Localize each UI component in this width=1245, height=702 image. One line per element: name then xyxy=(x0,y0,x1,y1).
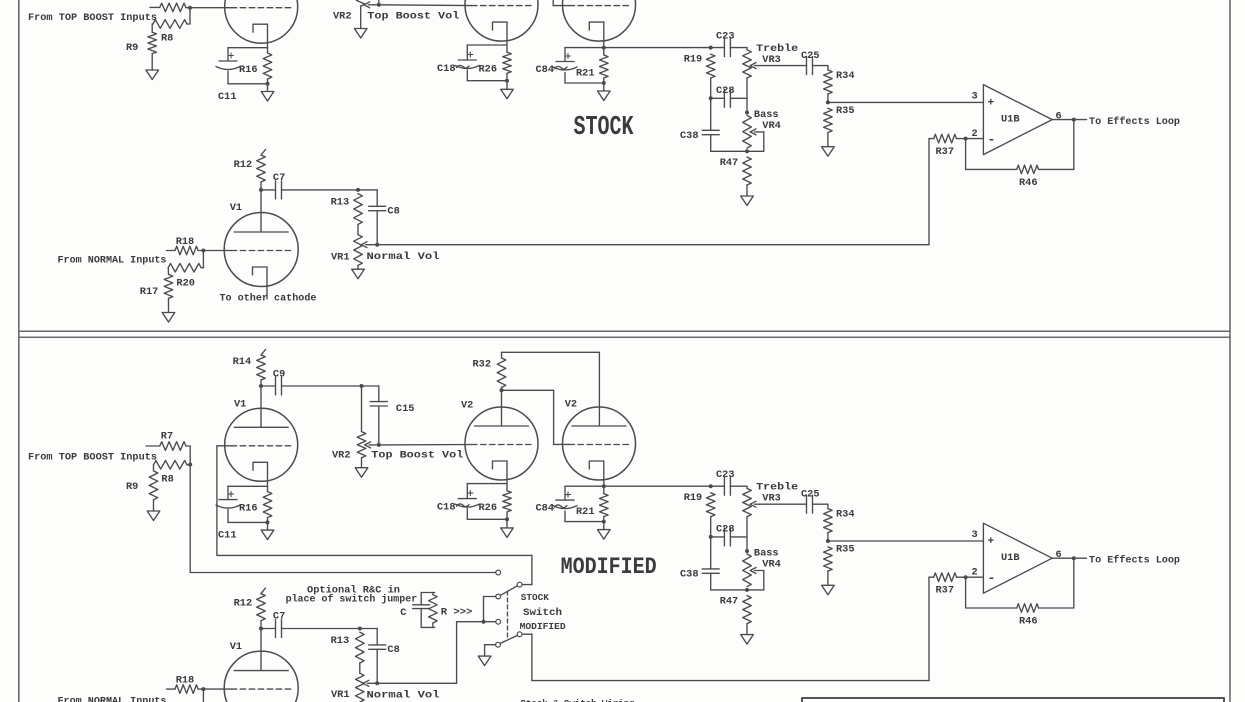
ground under R16/C11 (MOD) xyxy=(267,522,269,530)
svg-text:C9: C9 xyxy=(273,369,285,381)
svg-text:C23: C23 xyxy=(716,469,735,481)
svg-text:C84: C84 xyxy=(536,503,555,515)
wire R37 to pin 2 (MOD) xyxy=(957,576,984,578)
svg-text:VR2: VR2 xyxy=(333,10,352,22)
wire cathode follower output rail (MOD) xyxy=(565,485,711,487)
resistor R20 (STOCK) xyxy=(202,251,204,268)
wire direct coupling stub to V2b grid (STOCK) xyxy=(552,0,554,6)
resistor R37 (STOCK) xyxy=(929,138,934,140)
frame modified top border xyxy=(19,336,1230,338)
node feedback/pin2 (STOCK) xyxy=(964,137,968,141)
svg-text:C15: C15 xyxy=(396,403,415,415)
resistor R21 (STOCK) xyxy=(600,55,609,78)
switch contact pole1 throw xyxy=(517,582,522,587)
svg-text:MODIFIED: MODIFIED xyxy=(561,554,657,580)
op-amp U1B (STOCK) xyxy=(983,85,1052,155)
node R16/C11 bottom (STOCK) xyxy=(266,82,270,86)
svg-text:From TOP BOOST Inputs: From TOP BOOST Inputs xyxy=(28,452,157,464)
resistor R13 (STOCK) xyxy=(354,194,363,225)
node cathode output (STOCK) xyxy=(602,46,606,50)
svg-text:R37: R37 xyxy=(936,146,955,158)
op-amp U1B (MOD) xyxy=(983,523,1052,593)
svg-text:R47: R47 xyxy=(720,596,739,608)
capacitor C7 (STOCK) xyxy=(261,189,276,191)
svg-text:VR1: VR1 xyxy=(331,252,350,264)
frame right border xyxy=(1229,0,1231,702)
svg-text:R26: R26 xyxy=(479,502,498,514)
node R26/C18 bottom (MOD) xyxy=(505,517,509,521)
svg-text:place of switch jumper: place of switch jumper xyxy=(286,594,418,606)
resistor R19 (MOD) xyxy=(706,493,715,517)
wire C9 to C15/VR2 (MOD) xyxy=(282,385,379,387)
potentiometer VR2 Top Boost Vol (STOCK, clipped) xyxy=(356,0,365,6)
svg-text:C23: C23 xyxy=(716,31,735,43)
ground under R26 (STOCK) xyxy=(506,81,508,90)
capacitor C11 (MOD) xyxy=(228,485,268,487)
resistor R8 (MOD) xyxy=(154,461,188,470)
node R16/C11 bottom (MOD) xyxy=(266,520,270,524)
node Bass (STOCK) xyxy=(745,111,749,115)
capacitor C8 (MOD) xyxy=(376,629,378,645)
svg-text:+: + xyxy=(988,98,995,110)
potentiometer VR1 Normal Vol (MOD) xyxy=(359,663,361,673)
node R21/C84 bottom (MOD) xyxy=(602,520,606,524)
optional RC network C xyxy=(421,592,435,594)
ground under R47 (STOCK) xyxy=(746,185,748,196)
triode V2 second stage (MOD) xyxy=(465,407,538,480)
resistor R46 feedback (MOD) xyxy=(965,577,967,608)
node Bass (MOD) xyxy=(745,549,749,553)
svg-text:STOCK: STOCK xyxy=(521,592,549,603)
triode V2 cathode follower (MOD) xyxy=(563,407,636,480)
wire to op-amp pin 3 (STOCK) xyxy=(828,101,984,103)
svg-text:C28: C28 xyxy=(716,85,735,97)
svg-text:C: C xyxy=(400,607,406,619)
svg-text:C7: C7 xyxy=(273,611,285,623)
wire tone stack bottom rail (STOCK) xyxy=(711,150,764,152)
svg-text:R18: R18 xyxy=(176,675,195,687)
svg-text:From NORMAL Inputs: From NORMAL Inputs xyxy=(58,696,167,702)
wire cathode V1 to R16 (STOCK) xyxy=(267,24,269,53)
resistor R7 (MOD) xyxy=(160,442,186,451)
wire wiper to V2 grid (STOCK) xyxy=(379,4,472,7)
node feedback/pin2 (MOD) xyxy=(964,575,968,579)
svg-text:R46: R46 xyxy=(1019,616,1038,628)
ground under VR2 (MOD) xyxy=(361,458,363,468)
node R34/R35 (MOD) xyxy=(826,539,830,543)
wire V2a plate to V2b grid (MOD) xyxy=(502,389,554,391)
wire cathode to other cathode (STOCK) xyxy=(266,267,268,299)
capacitor C28 (STOCK) xyxy=(711,97,725,99)
frame left border xyxy=(18,0,20,702)
svg-text:-: - xyxy=(988,571,996,586)
node tone stack input (STOCK) xyxy=(709,46,713,50)
wire cathode V1 to R16 (MOD) xyxy=(267,462,269,491)
svg-text:C8: C8 xyxy=(387,206,399,218)
svg-text:V1: V1 xyxy=(230,202,242,214)
capacitor C25 (STOCK) xyxy=(806,57,808,75)
resistor R13 (MOD) xyxy=(356,632,365,663)
node R7/R8 (MOD) xyxy=(188,463,192,467)
node C15/wiper (MOD) xyxy=(377,443,381,447)
capacitor C15 (MOD) xyxy=(378,386,380,402)
svg-text:R12: R12 xyxy=(234,159,253,171)
wire R7/R8 node to switch contact (MOD) xyxy=(190,572,495,574)
svg-text:R32: R32 xyxy=(473,359,492,371)
svg-text:VR4: VR4 xyxy=(762,120,781,132)
svg-text:R34: R34 xyxy=(836,509,855,521)
node R21/C84 bottom (STOCK) xyxy=(602,81,606,85)
resistor R21 (MOD) xyxy=(600,494,609,517)
ground under R9 (MOD) xyxy=(153,500,155,511)
node R12/C7/plate (STOCK) xyxy=(259,188,263,192)
capacitor C25 (MOD) xyxy=(806,495,808,513)
resistor R19 (STOCK) xyxy=(706,54,715,78)
wire cathode V2a to R26 (MOD) xyxy=(506,461,508,491)
triode V1 normal channel (STOCK) xyxy=(260,190,262,232)
ground at switch pole2 common xyxy=(485,644,496,646)
pin 6 output wire (MOD) xyxy=(1052,557,1086,559)
svg-text:R26: R26 xyxy=(479,64,498,76)
triode V1 first stage (MOD) xyxy=(225,408,298,481)
svg-text:R35: R35 xyxy=(836,105,855,117)
wire grid rail to switch (MOD) xyxy=(217,554,532,556)
node cathode output (MOD) xyxy=(602,484,606,488)
svg-text:R7: R7 xyxy=(161,431,173,443)
frame stock bottom border xyxy=(19,330,1230,332)
svg-text:R21: R21 xyxy=(576,506,595,518)
svg-text:To other cathode: To other cathode xyxy=(220,293,317,305)
resistor R16 (STOCK) xyxy=(263,53,272,79)
svg-text:C8: C8 xyxy=(387,644,399,656)
triode V1 normal channel (MOD, clipped at bottom) xyxy=(260,629,262,671)
wire cathode V2a to R26 (STOCK) xyxy=(506,22,508,52)
svg-text:R16: R16 xyxy=(239,503,258,515)
wire R37 to pin 2 (STOCK) xyxy=(957,138,984,140)
svg-text:R18: R18 xyxy=(176,236,195,248)
capacitor C23 (STOCK) xyxy=(711,47,725,49)
node R14/C9/plate (MOD) xyxy=(259,384,263,388)
ground under R21 (STOCK) xyxy=(603,83,605,91)
svg-text:R9: R9 xyxy=(126,481,138,493)
svg-text:From NORMAL Inputs: From NORMAL Inputs xyxy=(58,255,167,267)
svg-text:R13: R13 xyxy=(331,197,350,209)
node switch jumper junction xyxy=(482,620,486,624)
node VR1 wiper (STOCK) xyxy=(375,243,379,247)
svg-text:To Effects Loop: To Effects Loop xyxy=(1089,116,1180,128)
potentiometer VR3 Treble (MOD) xyxy=(746,486,748,488)
node R34/R35 (STOCK) xyxy=(826,100,830,104)
svg-text:VR4: VR4 xyxy=(762,559,781,571)
svg-text:STOCK: STOCK xyxy=(574,113,635,143)
switch mechanical link (dashed) xyxy=(507,591,509,638)
node R18/grid (MOD) xyxy=(201,687,205,691)
switch pole2 lever xyxy=(500,636,517,644)
potentiometer VR4 Bass (MOD) xyxy=(743,554,752,587)
resistor R9 (MOD) xyxy=(153,465,155,471)
capacitor C11 (STOCK) xyxy=(228,47,268,49)
svg-text:C38: C38 xyxy=(680,130,699,142)
svg-text:R34: R34 xyxy=(836,70,855,82)
svg-text:R47: R47 xyxy=(720,157,739,169)
pin 6 output wire (STOCK) xyxy=(1052,119,1086,121)
svg-text:R9: R9 xyxy=(126,42,138,54)
node R19/C28/C38 (MOD) xyxy=(709,535,713,539)
optional RC network R xyxy=(432,593,434,595)
wire cathode follower output rail (STOCK) xyxy=(565,47,711,49)
potentiometer VR2 Top Boost Vol (MOD) xyxy=(357,432,366,458)
capacitor C18 (MOD) xyxy=(467,483,507,485)
capacitor C38 (MOD) xyxy=(710,537,712,569)
svg-text:R14: R14 xyxy=(233,356,252,368)
resistor R34 (MOD) xyxy=(813,503,828,505)
node R32 bottom / V2a plate (MOD) xyxy=(500,388,504,392)
node R47 top (STOCK) xyxy=(745,149,749,153)
node R13 top (MOD) xyxy=(358,627,362,631)
capacitor C28 (MOD) xyxy=(711,536,725,538)
svg-text:C38: C38 xyxy=(680,569,699,581)
wire VR1 rail to contact xyxy=(457,621,496,623)
resistor R17 (STOCK) xyxy=(167,268,169,275)
wire node to switch (MOD) xyxy=(189,465,191,573)
svg-text:R8: R8 xyxy=(161,474,173,486)
ground under R26 (MOD) xyxy=(506,519,508,528)
ground under R16/C11 (STOCK) xyxy=(267,84,269,92)
wire VR3 wiper to C25 (MOD) xyxy=(757,503,807,505)
svg-text:R20: R20 xyxy=(176,278,195,290)
wire R32 top to V2b plate (MOD) xyxy=(502,351,600,353)
ground under VR2 (STOCK) xyxy=(360,6,362,29)
potentiometer VR1 Normal Vol (STOCK) xyxy=(357,224,359,234)
wire VR1 wiper to R37 (STOCK) xyxy=(377,244,929,246)
svg-text:Stock & Switch Wiring: Stock & Switch Wiring xyxy=(521,699,635,702)
node VR2 wiper junction (STOCK) xyxy=(377,3,381,7)
svg-text:R17: R17 xyxy=(140,286,159,298)
switch contact pole2 common xyxy=(496,642,501,647)
triode V2 cathode follower (STOCK, clipped at top) xyxy=(563,0,636,41)
switch contact pole2 top xyxy=(496,619,501,624)
svg-text:R12: R12 xyxy=(234,598,253,610)
wire pole2 throw to op-amp return rail xyxy=(522,633,532,635)
svg-text:R19: R19 xyxy=(684,492,703,504)
resistor R8 (STOCK) xyxy=(153,20,187,29)
wire tone stack bottom rail (MOD) xyxy=(711,589,764,591)
title block bottom right xyxy=(802,698,1224,702)
svg-text:Top Boost Vol: Top Boost Vol xyxy=(371,450,463,462)
wire R7 to grid node (STOCK) xyxy=(186,7,190,9)
capacitor C9 (MOD) xyxy=(261,385,276,387)
wire switch jumper xyxy=(484,596,496,598)
svg-text:3: 3 xyxy=(972,529,978,541)
svg-text:U1B: U1B xyxy=(1001,114,1020,126)
capacitor C84 (STOCK) xyxy=(564,48,566,62)
svg-text:Normal Vol: Normal Vol xyxy=(367,689,440,701)
svg-text:R8: R8 xyxy=(161,33,173,45)
ground under R17 (STOCK) xyxy=(168,298,170,312)
svg-text:U1B: U1B xyxy=(1001,552,1020,564)
resistor R35 (STOCK) xyxy=(824,108,833,132)
svg-text:VR3: VR3 xyxy=(762,54,781,66)
svg-text:VR1: VR1 xyxy=(331,689,350,701)
svg-text:3: 3 xyxy=(972,91,978,103)
svg-text:+: + xyxy=(988,536,995,548)
svg-text:R46: R46 xyxy=(1019,177,1038,189)
svg-text:From TOP BOOST Inputs: From TOP BOOST Inputs xyxy=(28,12,157,24)
potentiometer VR4 Bass (STOCK) xyxy=(743,115,752,148)
wire R8 to node (STOCK) xyxy=(187,23,190,25)
resistor R34 (STOCK) xyxy=(813,65,828,67)
svg-text:V1: V1 xyxy=(234,399,246,411)
svg-text:Normal Vol: Normal Vol xyxy=(367,251,440,263)
switch contact pole1 common xyxy=(496,594,501,599)
svg-text:To Effects Loop: To Effects Loop xyxy=(1089,555,1180,567)
wire C7 to R13 node (STOCK) xyxy=(282,189,378,191)
svg-text:C18: C18 xyxy=(437,63,456,75)
resistor R46 feedback (STOCK) xyxy=(965,139,967,170)
node: R7/R8 junction (STOCK) xyxy=(188,6,192,10)
wire VR3 wiper to C25 (STOCK) xyxy=(757,65,807,67)
svg-text:6: 6 xyxy=(1056,549,1062,561)
svg-text:R19: R19 xyxy=(684,54,703,66)
svg-text:R >>>: R >>> xyxy=(441,607,473,619)
resistor R7 (STOCK) xyxy=(160,3,186,12)
wire VR1 wiper to switch (MOD) xyxy=(377,682,456,684)
node R26/C18 bottom (STOCK) xyxy=(505,79,509,83)
triode V2 second stage (STOCK, clipped at top) xyxy=(465,0,538,41)
svg-text:R21: R21 xyxy=(576,68,595,80)
resistor R26 (STOCK) xyxy=(503,52,512,73)
wire from C9 above frame to VR2 wiper (STOCK) xyxy=(378,0,380,5)
svg-text:C84: C84 xyxy=(536,64,555,76)
capacitor C84 (MOD) xyxy=(564,486,566,500)
switch contact pole2 throw xyxy=(517,632,522,637)
svg-text:C11: C11 xyxy=(218,530,237,542)
capacitor C18 (STOCK) xyxy=(467,44,507,46)
svg-text:6: 6 xyxy=(1056,111,1062,123)
ground under R21 (MOD) xyxy=(603,522,605,530)
svg-text:Switch: Switch xyxy=(523,607,562,619)
wire R7 to node (MOD) xyxy=(186,445,190,447)
svg-text:C18: C18 xyxy=(437,502,456,514)
switch contact stock-top xyxy=(496,570,501,575)
node R18/grid (STOCK) xyxy=(201,249,205,253)
ground under R47 (MOD) xyxy=(746,624,748,635)
resistor R16 (MOD) xyxy=(263,492,272,518)
wire cathode V2b down through node (STOCK) xyxy=(603,22,605,55)
wire to R7 (MOD) xyxy=(146,445,160,447)
resistor R47 (STOCK) xyxy=(743,157,752,185)
svg-text:VR3: VR3 xyxy=(762,493,781,505)
svg-text:C7: C7 xyxy=(273,172,285,184)
node R13 top (STOCK) xyxy=(356,188,360,192)
resistor R35 (MOD) xyxy=(824,547,833,571)
svg-text:C11: C11 xyxy=(218,91,237,103)
ground under R35 (STOCK) xyxy=(827,133,829,147)
wire cathode V2b down (MOD) xyxy=(603,461,605,494)
svg-text:MODIFIED: MODIFIED xyxy=(520,621,566,632)
ground under VR1 (STOCK) xyxy=(357,265,359,269)
capacitor C23 (MOD) xyxy=(711,485,725,487)
node output (MOD) xyxy=(1072,556,1076,560)
svg-text:R16: R16 xyxy=(239,64,258,76)
svg-text:VR2: VR2 xyxy=(332,450,351,462)
resistor R47 (MOD) xyxy=(743,596,752,624)
node output (STOCK) xyxy=(1072,118,1076,122)
wire V1 grid to switch (MOD) xyxy=(217,445,231,447)
node VR1 wiper (MOD) xyxy=(375,681,379,685)
capacitor C7 (MOD) xyxy=(261,628,276,630)
resistor R9 (STOCK) xyxy=(151,23,154,25)
svg-text:V1: V1 xyxy=(230,641,242,653)
resistor R26 (MOD) xyxy=(503,491,512,512)
capacitor C38 (STOCK) xyxy=(710,98,712,130)
capacitor C8 (STOCK) xyxy=(376,190,378,206)
wire to R7 (STOCK) xyxy=(150,6,160,8)
svg-text:-: - xyxy=(988,132,996,147)
node R12/C7/plate (MOD) xyxy=(259,627,263,631)
node tone stack input (MOD) xyxy=(709,484,713,488)
triode V1 first stage (STOCK, clipped at top) xyxy=(225,0,298,43)
svg-text:V2: V2 xyxy=(565,399,577,411)
svg-text:C25: C25 xyxy=(801,50,820,62)
svg-text:V2: V2 xyxy=(461,400,473,412)
svg-text:C25: C25 xyxy=(801,489,820,501)
wire to op-amp pin 3 (MOD) xyxy=(828,540,984,542)
wire C7 to R13 node (MOD) xyxy=(282,628,378,630)
node R47 top (MOD) xyxy=(745,588,749,592)
svg-text:R37: R37 xyxy=(936,585,955,597)
switch pole1 lever xyxy=(501,586,518,595)
potentiometer VR3 Treble (STOCK) xyxy=(746,48,748,50)
ground under R35 (MOD) xyxy=(827,571,829,585)
svg-text:R13: R13 xyxy=(331,635,350,647)
svg-text:R35: R35 xyxy=(836,544,855,556)
svg-text:C28: C28 xyxy=(716,523,735,535)
node R19/C28/C38 (STOCK) xyxy=(709,96,713,100)
wire wiper to V2 grid (MOD) xyxy=(379,444,472,446)
resistor R37 (MOD) xyxy=(929,576,934,578)
node VR2 top branch (MOD) xyxy=(360,384,364,388)
svg-text:Top Boost Vol: Top Boost Vol xyxy=(367,10,459,22)
ground under R9 (STOCK) xyxy=(151,54,153,70)
